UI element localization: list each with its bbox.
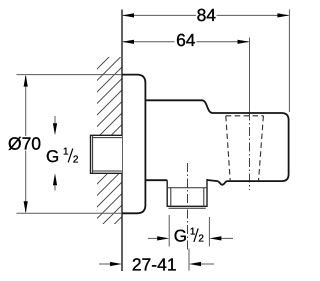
dimension 64 <box>122 30 250 50</box>
extension line 64 (solid part) <box>249 38 251 112</box>
rosette (wall plate) <box>122 75 145 214</box>
wall hatching <box>86 36 130 264</box>
svg-text:1: 1 <box>63 147 69 158</box>
dimension 27-41 <box>99 249 214 275</box>
extension line top (Ø70) <box>17 74 123 76</box>
svg-text:2: 2 <box>198 234 204 245</box>
svg-text:27-41: 27-41 <box>132 254 177 274</box>
body bottom edge left of outlet <box>145 179 167 181</box>
svg-text:64: 64 <box>176 30 196 50</box>
left connection port G1/2 <box>91 135 123 173</box>
dimension 84 <box>122 5 289 25</box>
svg-text:Ø70: Ø70 <box>8 134 41 154</box>
svg-text:G: G <box>174 227 187 246</box>
outlet centreline (dash-dot) <box>187 163 189 252</box>
dimension G1/2 left <box>46 116 79 191</box>
svg-text:84: 84 <box>197 5 217 25</box>
dimension G1/2 bottom <box>148 215 233 247</box>
svg-text:2: 2 <box>73 155 79 166</box>
wall face line (also extension line for 84/64 above and 27-41 below) <box>121 10 123 272</box>
svg-text:1: 1 <box>190 227 196 238</box>
svg-text:G: G <box>46 147 59 166</box>
body outline <box>145 100 288 184</box>
bottom outlet stub G1/2 <box>167 179 207 208</box>
extension line bottom (Ø70) <box>17 212 125 214</box>
dimension Ø70 <box>8 75 41 214</box>
holder cone hidden edges (dashed) <box>226 116 264 181</box>
centreline of holder cone (dash-dot) <box>249 112 251 191</box>
extension line right (84) <box>288 10 290 113</box>
